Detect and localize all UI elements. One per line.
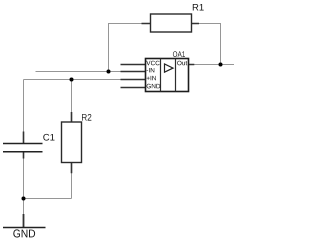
pin name Out: [177, 61, 187, 66]
label C1: [43, 134, 54, 141]
junction dot node A (-IN net): [107, 70, 111, 74]
amp triangle: [165, 64, 174, 72]
label GND: [13, 229, 35, 237]
pin name VCC: [146, 61, 159, 66]
pin name GND: [147, 84, 161, 89]
junction dot ground node: [22, 197, 26, 201]
body dividers: [161, 59, 176, 92]
ground stub: [23, 214, 25, 228]
R2 pin stubs: [71, 112, 73, 173]
resistor R1: [142, 4, 204, 32]
wire C1 bottom to ground symbol: [23, 152, 25, 215]
R2 body: [62, 122, 82, 163]
junction dot node B (+IN net): [70, 78, 74, 82]
capacitor C1: [3, 132, 55, 159]
resistor R2: [62, 112, 92, 173]
label OA1: [173, 51, 185, 57]
label R1: [193, 4, 204, 11]
wire R1-right down to output node: [199, 24, 221, 65]
pin name +IN: [147, 76, 156, 80]
pin name -IN: [147, 68, 155, 72]
pin stubs VCC, -IN, +IN, GND: [121, 65, 146, 88]
R1 pin stubs: [142, 23, 200, 25]
C1 bottom plate: [3, 151, 43, 153]
wire +IN node down to R2 top: [71, 80, 73, 113]
op-amp body: [146, 59, 189, 92]
junction dot output node: [219, 63, 223, 67]
label R2: [82, 114, 91, 121]
ground: [3, 214, 46, 238]
pin stub Out: [189, 64, 195, 66]
C1 pin stubs: [23, 132, 25, 159]
wire R2 bottom down to ground net: [71, 173, 73, 199]
wire R1-left down to inverting input node: [109, 24, 142, 72]
R1 body: [151, 14, 192, 32]
wire op-amp Out to right edge: [194, 64, 234, 66]
op-amp OA1: [121, 51, 195, 91]
ground bar: [3, 227, 46, 229]
wire +IN net down to C1 top: [23, 80, 25, 133]
wire +IN net horizontal: [24, 79, 146, 81]
wire ground net horizontal: [24, 198, 72, 200]
wire open stub left of -IN: [36, 71, 146, 73]
C1 top plate: [3, 143, 43, 145]
